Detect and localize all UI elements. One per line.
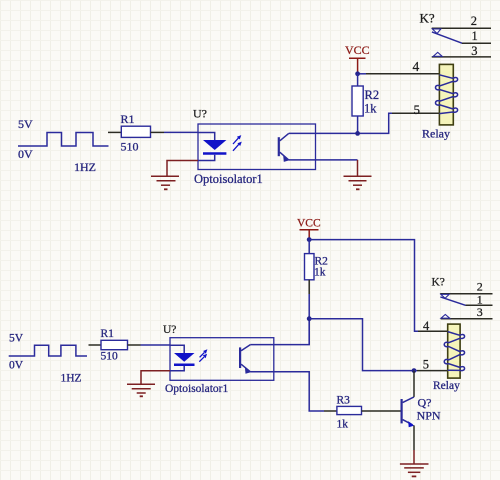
svg-text:1HZ: 1HZ [74,160,96,174]
svg-text:510: 510 [101,351,119,363]
svg-text:VCC: VCC [345,43,370,57]
svg-text:VCC: VCC [297,218,321,230]
svg-text:Relay: Relay [433,380,460,392]
svg-text:Optoisolator1: Optoisolator1 [194,172,263,186]
svg-text:4: 4 [423,319,430,333]
svg-text:NPN: NPN [417,408,441,422]
svg-text:U?: U? [163,324,176,336]
svg-text:Optoisolator1: Optoisolator1 [165,383,228,395]
svg-text:1k: 1k [314,267,326,279]
svg-text:3: 3 [471,44,477,58]
svg-text:R2: R2 [365,88,380,102]
svg-text:1k: 1k [337,419,349,431]
svg-text:4: 4 [413,59,420,74]
svg-text:510: 510 [121,140,139,154]
svg-text:1: 1 [472,29,478,43]
svg-text:Q?: Q? [418,395,432,409]
svg-text:R1: R1 [121,112,135,126]
svg-text:0V: 0V [18,147,33,161]
svg-text:5V: 5V [9,333,24,345]
svg-text:1HZ: 1HZ [61,373,82,385]
svg-text:5: 5 [414,102,421,117]
svg-text:0V: 0V [9,360,24,372]
svg-text:Relay: Relay [422,126,450,140]
svg-text:5V: 5V [18,117,33,131]
svg-text:2: 2 [471,14,477,28]
svg-text:K?: K? [432,277,445,289]
svg-text:3: 3 [477,305,483,319]
svg-text:U?: U? [193,107,207,121]
svg-text:5: 5 [423,357,429,371]
svg-text:K?: K? [420,10,435,25]
svg-text:1k: 1k [364,101,377,115]
svg-text:R3: R3 [337,394,351,406]
svg-text:R1: R1 [101,328,115,340]
